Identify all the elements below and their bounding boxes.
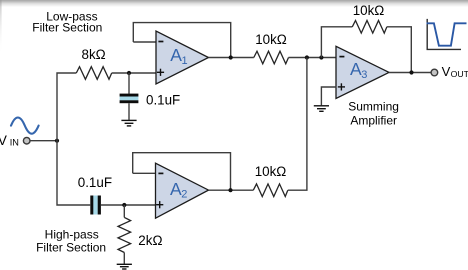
ground under R4 [117,264,132,269]
wire 2k resistor to ground [123,253,125,264]
resistor R4 2kOhm [118,217,131,252]
op-amp A2 [156,163,209,218]
wire resistor to A1 plus input [112,72,157,74]
input signal sine icon [11,118,39,134]
node summing junction [305,55,309,59]
wire A3 output [389,72,431,74]
node output [409,70,413,74]
wire node to 2k resistor [123,205,125,217]
capacitor C2 0.1uF high-pass [90,196,101,215]
svg-text:10kΩ: 10kΩ [255,164,287,179]
node A2 output [228,188,232,192]
node input junction [55,139,59,143]
node A1 output [229,55,233,59]
wire junction up to low-pass branch [57,73,76,141]
wire A1 feedback loop [133,23,230,58]
svg-text:A: A [170,179,182,199]
svg-text:Filter Section: Filter Section [36,240,106,254]
label High-pass Filter Section [36,228,106,255]
wire R3 to output node [387,27,411,73]
op-amp A3 [336,46,389,98]
wire junction down to high-pass branch [57,141,90,205]
svg-text:3: 3 [361,69,367,81]
svg-text:0.1uF: 0.1uF [146,93,180,108]
svg-text:10kΩ: 10kΩ [255,32,287,47]
resistor R1 8kOhm [76,67,111,80]
wire A3 feedback loop [321,27,352,58]
A3 plus sign [338,83,345,90]
op-amp A1 [156,31,209,84]
A2 minus sign [158,172,163,174]
wire A3 plus to ground [321,87,336,105]
wire C2 to A2 plus input [101,204,156,206]
A1 plus sign [157,69,164,76]
A2 plus sign [156,201,163,208]
wire A1 output [209,57,254,59]
node low-pass filter node [127,71,131,75]
resistor R3 10kOhm feedback [352,21,387,34]
wire input to junction [30,140,57,142]
svg-text:Summing: Summing [348,99,399,113]
resistor R2 10kOhm [254,51,289,64]
wire A2 output [209,189,254,191]
wire node to capacitor [128,73,130,94]
resistor R5 10kOhm [253,184,287,197]
label Summing Amplifier [348,99,399,127]
svg-text:2kΩ: 2kΩ [138,233,162,248]
A3 minus sign [339,56,344,58]
wire A2 feedback loop [133,153,231,191]
svg-text:A: A [170,45,182,65]
wire A2 minus lead [133,172,156,174]
wire R5 up to summing junction [288,58,307,191]
capacitor C1 0.1uF [120,94,139,104]
wire A1 minus lead [133,41,156,43]
wire capacitor to ground [128,103,130,120]
svg-text:Filter Section: Filter Section [32,20,102,34]
label VIN [0,133,19,148]
svg-text:A: A [350,59,362,79]
node feedback tap [319,55,323,59]
svg-text:V: V [442,64,451,79]
ground A3 [314,106,329,112]
output terminal [431,69,438,76]
svg-text:1: 1 [182,55,188,67]
svg-text:8kΩ: 8kΩ [82,47,106,62]
svg-text:Amplifier: Amplifier [350,113,397,127]
node high-pass filter node [122,203,126,207]
svg-text:IN: IN [10,138,19,148]
A1 minus sign [158,41,163,43]
svg-text:10kΩ: 10kΩ [353,3,385,18]
svg-text:V: V [0,133,7,148]
svg-text:2: 2 [181,189,187,201]
svg-text:OUT: OUT [451,69,468,79]
wire R2 to A3 minus [289,57,337,59]
svg-text:0.1uF: 0.1uF [78,175,112,190]
band-stop response icon [427,19,467,50]
label Low-pass Filter Section [32,9,102,34]
input terminal [23,137,30,144]
ground under C1 [121,120,136,126]
label VOUT [442,64,468,79]
